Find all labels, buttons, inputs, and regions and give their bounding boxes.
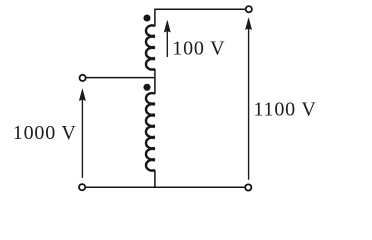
- svg-text:1000 V: 1000 V: [13, 122, 77, 144]
- svg-text:100 V: 100 V: [172, 37, 225, 59]
- svg-text:1100 V: 1100 V: [254, 99, 317, 121]
